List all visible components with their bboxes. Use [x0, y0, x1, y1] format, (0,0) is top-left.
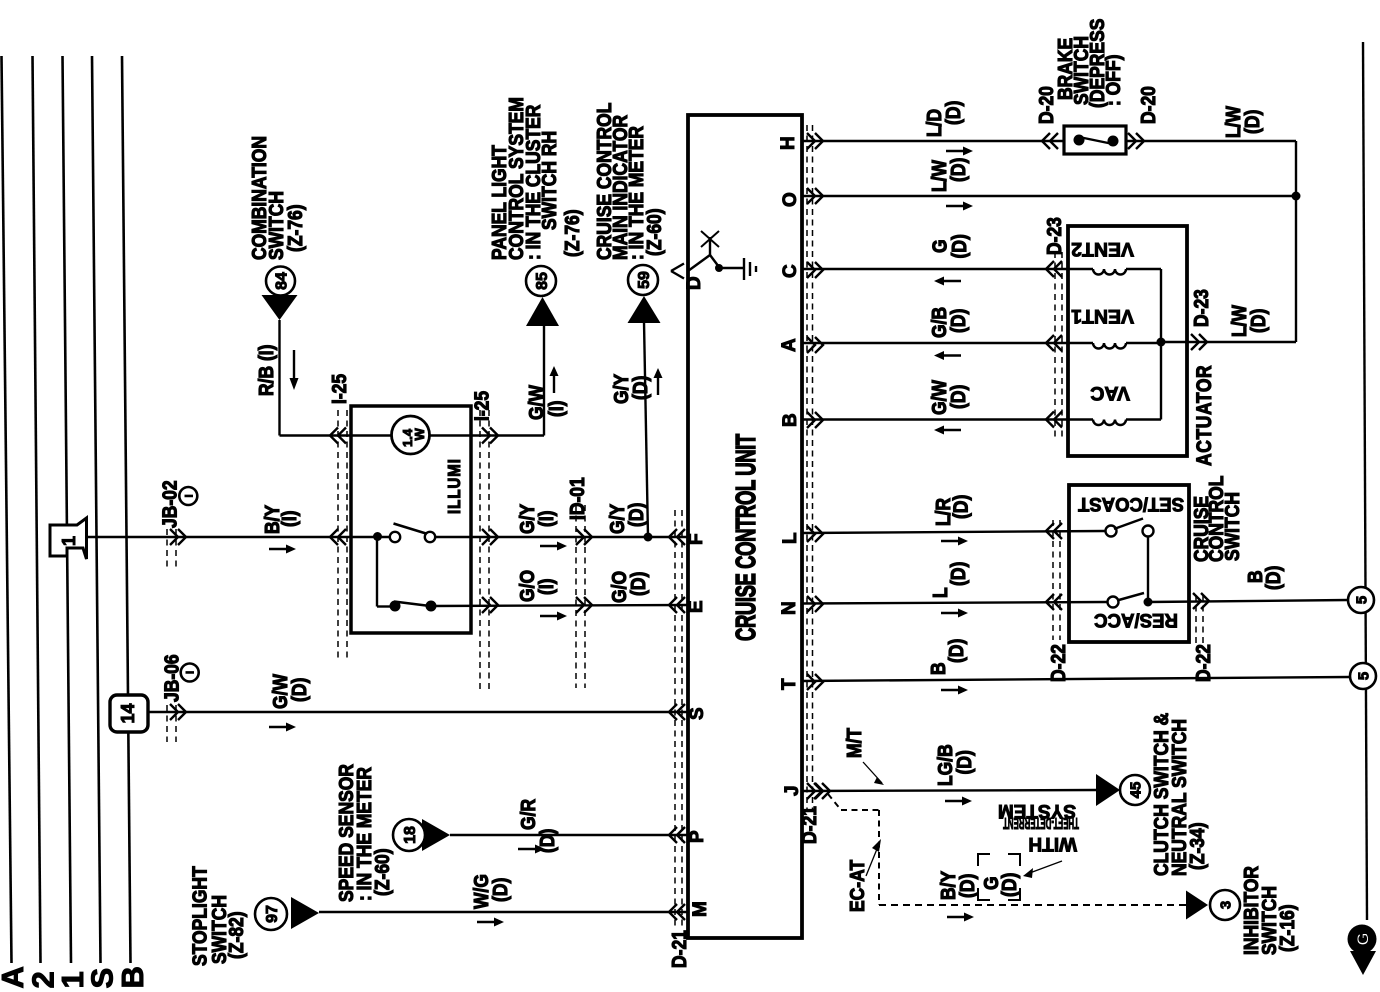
svg-text:EC-AT: EC-AT [846, 859, 868, 912]
svg-text:P: P [687, 830, 708, 843]
svg-text:F: F [686, 533, 707, 545]
svg-text:84: 84 [273, 272, 290, 290]
svg-text:(D): (D) [942, 101, 964, 125]
svg-text:I-25: I-25 [470, 391, 492, 421]
svg-text:CRUISE CONTROL UNIT: CRUISE CONTROL UNIT [730, 433, 761, 641]
svg-text:(D): (D) [945, 639, 967, 663]
svg-text:D-23: D-23 [1190, 289, 1212, 327]
svg-text:SWITCH: SWITCH [1221, 492, 1243, 561]
svg-text:18: 18 [402, 826, 419, 844]
svg-text:VAC: VAC [1090, 382, 1130, 404]
svg-text:(Z-60): (Z-60) [643, 208, 665, 256]
svg-text:5: 5 [1353, 596, 1370, 604]
svg-text:M/T: M/T [843, 727, 865, 758]
svg-text:VENT2: VENT2 [1071, 238, 1134, 260]
svg-text:85: 85 [534, 272, 551, 290]
svg-text:B: B [115, 966, 150, 988]
svg-text:S: S [687, 707, 708, 720]
svg-text:: OFF): : OFF) [1102, 55, 1124, 106]
svg-text:(Z-16): (Z-16) [1276, 904, 1298, 952]
svg-text:A: A [779, 338, 800, 352]
svg-text:(D): (D) [489, 878, 511, 902]
svg-text:VENT1: VENT1 [1071, 305, 1134, 327]
svg-text:1: 1 [59, 536, 79, 546]
svg-text:G: G [1354, 932, 1373, 945]
svg-text:(D): (D) [1241, 110, 1263, 134]
svg-text:D-22: D-22 [1047, 644, 1069, 682]
svg-text:B: B [927, 662, 949, 675]
svg-text:G/R: G/R [517, 799, 539, 830]
svg-text:(I): (I) [535, 510, 557, 527]
svg-text:THEFT-DETERRENT: THEFT-DETERRENT [1003, 814, 1079, 831]
svg-text:(I): (I) [278, 510, 300, 527]
svg-text:WITH: WITH [1028, 833, 1077, 854]
svg-text:D-21: D-21 [798, 806, 820, 844]
svg-text:ACTUATOR: ACTUATOR [1194, 365, 1217, 466]
svg-text:45: 45 [1127, 782, 1144, 799]
svg-text:(D): (D) [627, 572, 649, 596]
svg-text:(D): (D) [949, 495, 971, 519]
svg-text:(I): (I) [535, 578, 557, 595]
svg-text:ILLUMI: ILLUMI [445, 458, 464, 514]
svg-text:(D): (D) [1247, 309, 1269, 333]
svg-text:D-22: D-22 [1192, 644, 1214, 682]
svg-text:ID-01: ID-01 [566, 477, 588, 520]
svg-text:3: 3 [1217, 901, 1234, 909]
svg-text:(D): (D) [1262, 566, 1284, 590]
svg-text:(D): (D) [629, 376, 651, 400]
svg-text:(D): (D) [947, 562, 969, 586]
svg-text:D-23: D-23 [1043, 217, 1065, 255]
svg-text:L: L [929, 587, 951, 598]
svg-text:(Z-76): (Z-76) [284, 204, 306, 252]
svg-text:W: W [412, 428, 427, 441]
svg-text:(D): (D) [948, 234, 970, 258]
svg-text:(D): (D) [947, 385, 969, 409]
svg-text:H: H [778, 136, 799, 150]
svg-text:O: O [780, 192, 801, 207]
svg-text:(Z-76): (Z-76) [561, 209, 583, 257]
svg-text:J: J [782, 785, 803, 796]
svg-text:E: E [686, 600, 707, 613]
svg-text:(D): (D) [288, 678, 310, 702]
svg-text:(D): (D) [998, 873, 1020, 897]
svg-text:D-20: D-20 [1137, 86, 1159, 124]
svg-text:5: 5 [1355, 672, 1372, 680]
svg-text:(D): (D) [956, 874, 978, 898]
svg-text:C: C [780, 264, 801, 278]
svg-text:D-21: D-21 [668, 930, 690, 968]
svg-text:SET/COAST: SET/COAST [1078, 493, 1184, 514]
svg-text:JB-06: JB-06 [161, 654, 183, 702]
svg-text:RES/ACC: RES/ACC [1094, 609, 1178, 630]
svg-text:T: T [779, 678, 800, 690]
svg-text:I-25: I-25 [328, 374, 350, 404]
svg-text:I: I [183, 494, 195, 497]
svg-text:97: 97 [264, 905, 281, 923]
svg-text:JB-02: JB-02 [158, 480, 180, 528]
svg-text:I: I [185, 671, 197, 674]
svg-text:(Z-82): (Z-82) [225, 911, 247, 959]
svg-text:(D): (D) [953, 750, 975, 774]
svg-text:(Z-34): (Z-34) [1186, 822, 1208, 870]
svg-text:(D): (D) [947, 309, 969, 333]
svg-text:SWITCH RH: SWITCH RH [538, 131, 560, 230]
svg-text:(D): (D) [625, 503, 647, 527]
svg-text:M: M [690, 901, 711, 917]
svg-text:D: D [684, 276, 705, 290]
svg-text:(I): (I) [545, 400, 567, 417]
svg-text:R/B (I): R/B (I) [255, 345, 277, 396]
svg-text:(D): (D) [947, 158, 969, 182]
svg-text:(Z-60): (Z-60) [371, 848, 393, 896]
svg-text:14: 14 [118, 703, 138, 723]
svg-text:59: 59 [636, 271, 653, 289]
svg-text:L: L [780, 532, 801, 544]
svg-text:N: N [779, 601, 800, 615]
svg-text:B: B [780, 413, 801, 427]
